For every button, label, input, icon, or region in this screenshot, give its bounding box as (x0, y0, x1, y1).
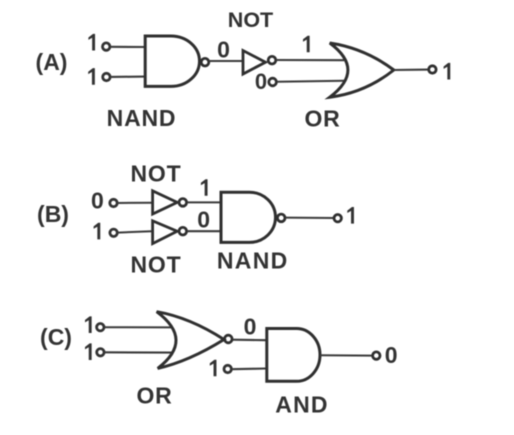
svg-text:OR: OR (136, 383, 172, 409)
svg-text:(C): (C) (40, 324, 72, 350)
svg-text:AND: AND (275, 392, 328, 418)
svg-text:NOT: NOT (228, 8, 273, 32)
svg-text:0: 0 (197, 206, 210, 232)
svg-text:NAND: NAND (217, 248, 289, 274)
svg-text:0: 0 (385, 342, 398, 368)
svg-text:NAND: NAND (107, 105, 177, 131)
svg-text:(B): (B) (37, 201, 69, 227)
svg-text:(A): (A) (36, 49, 68, 75)
svg-text:0: 0 (255, 69, 267, 94)
svg-text:0: 0 (244, 314, 257, 340)
svg-text:0: 0 (91, 188, 104, 214)
svg-text:NOT: NOT (131, 252, 182, 278)
svg-text:0: 0 (217, 37, 230, 63)
svg-text:OR: OR (304, 106, 340, 132)
svg-text:NOT: NOT (131, 161, 182, 187)
